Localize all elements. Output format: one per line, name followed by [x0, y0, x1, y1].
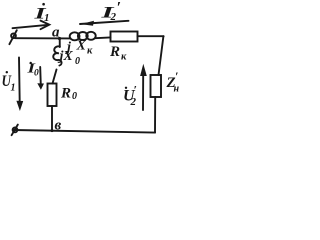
svg-text:2: 2 — [130, 96, 137, 108]
bottom wire — [14, 130, 155, 133]
svg-text:0: 0 — [75, 56, 80, 67]
svg-text:1: 1 — [44, 12, 50, 24]
wire Rk to top-right corner — [138, 35, 164, 37]
svg-text:к: к — [87, 46, 93, 57]
current arrow I2' — [80, 21, 129, 26]
svg-text:′: ′ — [134, 83, 137, 97]
label U2' — [123, 83, 137, 109]
inductor X0 coil (vertical) — [53, 46, 61, 65]
terminal T2 bottom-left — [12, 125, 18, 136]
node b junction — [51, 129, 54, 132]
label Zn' — [166, 69, 180, 95]
svg-text:R: R — [109, 44, 120, 60]
load Zn' — [151, 75, 162, 97]
svg-text:′: ′ — [175, 69, 178, 83]
wire below R0 — [51, 106, 53, 131]
svg-text:к: к — [121, 52, 127, 63]
wire top-left segment — [16, 37, 71, 39]
svg-text:н: н — [174, 84, 180, 95]
label jX0 — [58, 49, 81, 67]
label U1 — [2, 71, 16, 94]
label I2' — [100, 0, 121, 23]
svg-text:1: 1 — [11, 83, 16, 94]
wire coil to R0 — [53, 70, 57, 84]
inductor Xk coil — [70, 32, 96, 41]
magnetizing branch wire from node a — [59, 39, 61, 48]
svg-text:R: R — [60, 86, 71, 102]
resistor Rk — [111, 32, 138, 42]
svg-text:a: a — [52, 25, 60, 41]
label Rk — [109, 44, 127, 63]
resistor R0 — [48, 84, 57, 107]
svg-text:X: X — [76, 39, 87, 54]
label jXk — [65, 39, 93, 57]
svg-text:jX: jX — [58, 49, 74, 64]
svg-text:2: 2 — [110, 11, 117, 23]
svg-text:′: ′ — [117, 0, 122, 17]
wire coil to Rk — [95, 36, 110, 39]
label I1 — [33, 3, 50, 24]
svg-text:0: 0 — [34, 69, 39, 79]
svg-text:0: 0 — [72, 91, 77, 102]
label R0 — [60, 86, 77, 103]
current arrow I1 — [13, 21, 50, 30]
current arrow I0 — [37, 67, 44, 90]
node a — [58, 37, 61, 40]
voltage arrow U1 — [16, 58, 23, 112]
label I0 — [26, 62, 39, 79]
wire below load — [154, 97, 156, 133]
voltage arrow U2' — [140, 64, 147, 110]
terminal T1 top-left — [9, 30, 16, 44]
wire right vertical — [159, 36, 164, 75]
